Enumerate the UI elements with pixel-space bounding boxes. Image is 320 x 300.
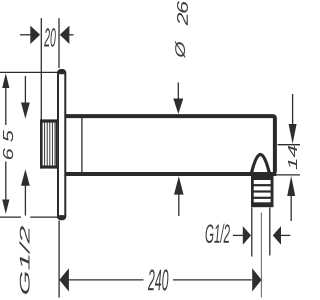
spout tube top and right edge: [66, 116, 275, 172]
label 20: [44, 28, 56, 47]
label diameter symbol: [175, 40, 185, 58]
dim G1/2 right: right arrowhead: [273, 226, 281, 245]
dim 65: dimension line lower shaft: [5, 162, 7, 201]
label 65 digit 5: [3, 130, 13, 142]
dim 240: right extension / outlet centre line: [260, 213, 262, 298]
knurled outlet nipple: [251, 176, 274, 208]
dim 20: right arrowhead: [60, 26, 70, 44]
dim 14: top extension line: [278, 144, 300, 146]
outlet arch: [251, 155, 270, 176]
label G1/2 right: [206, 224, 230, 243]
wall flange top cap: [58, 70, 65, 74]
dim 65: dimension line upper shaft: [5, 88, 7, 126]
dim G1/2 left: lower arrow shaft: [24, 186, 26, 216]
dim diameter 26: upper arrow shaft: [177, 83, 179, 100]
label 26 digit 2: [177, 13, 188, 26]
dim diameter 26: lower arrowhead: [174, 176, 184, 194]
label 14: [288, 146, 297, 170]
nut hatch lines: [45, 123, 55, 166]
dim 65: top extension line: [0, 71, 58, 73]
dim 65: top arrowhead: [2, 73, 9, 88]
dim 20: right arrow shaft: [69, 34, 74, 36]
dim diameter 26: upper arrowhead: [173, 99, 183, 115]
dim G1/2 right: left arrow shaft: [233, 234, 243, 236]
dim 65: bottom extension line: [0, 216, 58, 218]
label 26 digit 6: [177, 1, 188, 13]
wall flange bottom cap: [58, 215, 65, 219]
dim G1/2 right: left arrowhead: [243, 226, 251, 245]
nipple left extension line: [251, 208, 253, 257]
dim diameter 26: lower arrow shaft: [178, 195, 180, 217]
dim 14: bottom extension line: [276, 174, 300, 176]
dim 240: dimension line segments: [69, 279, 252, 281]
nipple right extension line: [269, 208, 271, 256]
joint line on tube: [81, 118, 83, 172]
dim 14: upper arrowhead: [289, 124, 297, 144]
dim G1/2 left: upper arrow shaft: [24, 76, 26, 103]
label 240: [148, 269, 168, 290]
threaded nut body: [40, 119, 58, 168]
dim G1/2 right: right arrow shaft: [281, 234, 290, 236]
dim 240: left arrowhead: [59, 268, 69, 291]
dim G1/2 left: lower arrowhead: [21, 169, 30, 186]
wall flange plate: [58, 70, 65, 219]
dim 14: lower arrow shaft: [290, 196, 292, 222]
dim G1/2 left: upper arrowhead: [21, 103, 30, 119]
label 65 digit 6: [3, 148, 13, 159]
dim 14: upper arrow shaft: [292, 94, 294, 125]
label G1/2 left: [19, 226, 29, 294]
dim 240: right arrowhead: [252, 268, 261, 291]
dim 20: left arrowhead: [30, 26, 40, 44]
dim 240: left extension line: [58, 221, 60, 298]
dim 20: left arrow shaft: [20, 34, 30, 36]
dim 14: lower arrowhead: [287, 176, 295, 196]
dim 20: extension line left: [40, 18, 42, 119]
dim 20: extension line right: [58, 18, 60, 68]
dim 65: bottom arrowhead: [2, 200, 9, 215]
spout tube bottom edge: [66, 172, 277, 176]
